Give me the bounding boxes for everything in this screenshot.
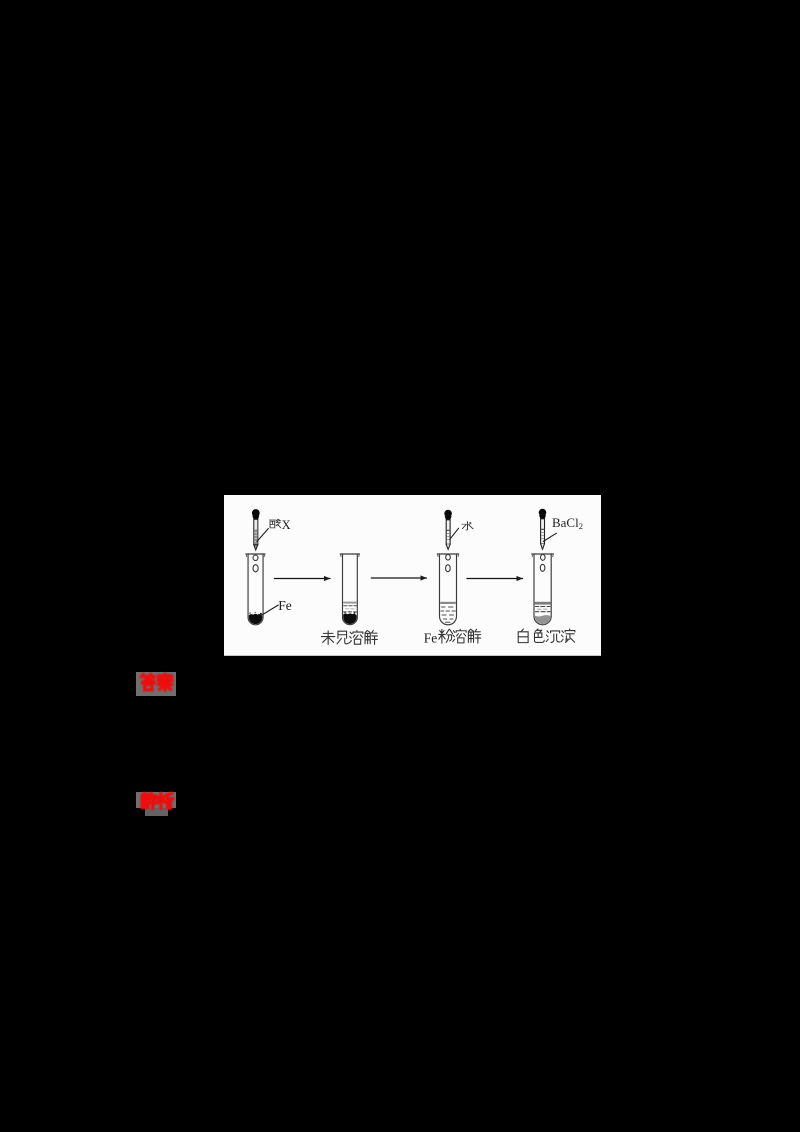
liquid surface T2 (343, 602, 356, 604)
liquid dashes T4 (535, 607, 549, 612)
arrow 1 (275, 578, 330, 580)
caption 未见溶解 (321, 631, 377, 645)
drop B in T3 (446, 565, 451, 572)
liquid surface T4 (535, 602, 551, 605)
test tube T2 (340, 554, 359, 625)
svg-text:BaCl2: BaCl2 (552, 515, 583, 531)
drop B in T1 (253, 565, 258, 572)
drop B in T4 (540, 565, 545, 572)
red label block 2 (解析) (136, 792, 176, 808)
drop A in T4 (540, 555, 545, 561)
sediment in T2 (343, 614, 356, 625)
label line to Fe (260, 605, 278, 616)
caption 白色沉淀 (518, 629, 575, 643)
svg-text:Fe: Fe (424, 631, 437, 646)
drop A in T1 (253, 555, 258, 560)
liquid surface T3 (440, 602, 456, 604)
text 水 (462, 522, 473, 530)
svg-text:X: X (282, 518, 291, 532)
svg-text:Fe: Fe (278, 598, 292, 613)
Fe powder sediment in T1 (249, 614, 262, 624)
text 酸X (269, 520, 281, 529)
test tube T4 (532, 554, 554, 625)
label line to 水 (450, 529, 459, 540)
liquid dashes T3 (441, 607, 455, 622)
dropper D3 (water) (444, 510, 452, 550)
dropper D4 (BaCl2) (539, 509, 547, 550)
white precipitate (gray lump) in T4 (535, 616, 551, 625)
red label block 1 (答案) (136, 672, 176, 696)
liquid dashes T2 (344, 606, 357, 612)
test tube T3 (437, 554, 458, 625)
arrow 3 (467, 578, 522, 580)
white diagram panel (224, 495, 601, 656)
dropper D1 (acid X) (252, 509, 260, 550)
arrow 2 (371, 577, 426, 579)
label line to BaCl2 (543, 534, 556, 542)
test tube T1 (246, 554, 265, 625)
label line to 酸X (257, 529, 268, 542)
drop A in T3 (446, 555, 451, 561)
